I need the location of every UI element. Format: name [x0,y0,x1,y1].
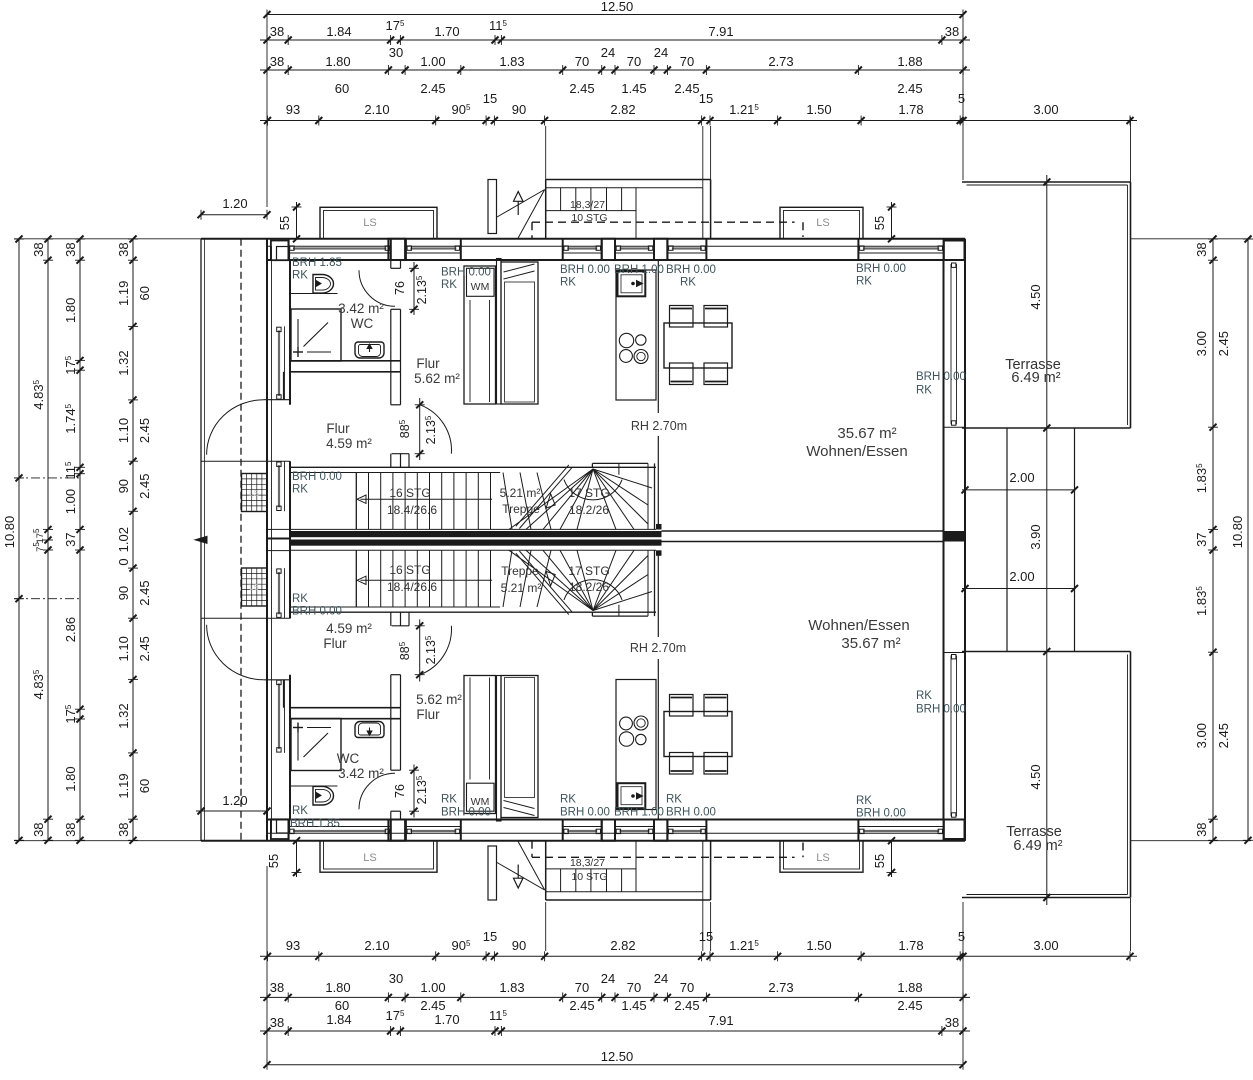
dining table (upper) [664,323,732,368]
window (bottom facade) [858,826,943,828]
Flur partition (lower) [390,675,392,708]
svg-text:10 STG: 10 STG [571,212,607,224]
stair enclosure top unit [290,466,656,468]
terrace top [962,181,1131,183]
svg-text:2.45: 2.45 [674,998,699,1013]
4.50 / 3.90 dim line [1046,175,1048,905]
svg-text:Flur: Flur [416,707,440,722]
svg-text:3.42 m²: 3.42 m² [338,766,384,781]
svg-text:55: 55 [872,216,887,230]
svg-text:18,3/27: 18,3/27 [570,857,605,869]
stair cut line top [516,465,569,526]
svg-text:BRH 0.00: BRH 0.00 [666,264,716,276]
entry door head line (lower) [264,679,291,681]
svg-text:1.78: 1.78 [898,938,923,953]
masonry piers (top facade) [388,239,405,260]
svg-text:7.91: 7.91 [708,1013,733,1028]
svg-text:RH 2.70m: RH 2.70m [630,641,686,655]
svg-text:RK: RK [292,805,308,817]
svg-text:15: 15 [699,91,713,106]
kitchen/living divider (lower) [657,552,659,638]
svg-text:RK: RK [292,270,308,282]
svg-text:1.80: 1.80 [63,766,78,791]
WC right wall (lower) [390,811,392,819]
svg-text:4.50: 4.50 [1028,284,1043,309]
wall pier divider [666,239,668,260]
lightshaft hatch box lower [242,568,268,606]
svg-text:LS: LS [816,217,829,229]
right chain 10.80 [1247,239,1249,840]
svg-text:1.50: 1.50 [806,102,831,117]
strip recess edges / door sill lines [201,460,290,462]
svg-text:5: 5 [958,929,965,944]
left chain 3 [79,239,81,840]
svg-text:2.45: 2.45 [674,81,699,96]
svg-text:BRH 0.00: BRH 0.00 [916,704,966,716]
entry stair riser [606,188,608,211]
svg-text:RK: RK [441,794,457,806]
dim chain top row3 [260,69,970,71]
svg-text:1.45: 1.45 [621,81,646,96]
entry stair enclosure (bottom) [546,899,711,901]
entry ramp diagonals (bottom) [497,863,545,891]
party wall junction pocket [267,529,290,550]
section dash-dot lines [14,477,80,479]
svg-text:60: 60 [137,286,152,300]
svg-text:1.78: 1.78 [898,102,923,117]
Flur door arc + dim 88.5/2.135 (lower) [420,626,452,675]
svg-text:4.59 m²: 4.59 m² [326,621,372,636]
svg-text:3.42 m²: 3.42 m² [338,301,384,316]
1.20 dim top-left [200,214,268,216]
window (bottom facade) [615,826,654,828]
svg-text:38: 38 [31,242,46,256]
svg-text:RK: RK [856,795,872,807]
svg-text:1.19: 1.19 [116,773,131,798]
svg-text:17 STG: 17 STG [568,486,609,500]
window (top facade) [289,252,391,254]
svg-text:2.45: 2.45 [420,81,445,96]
svg-text:1.32: 1.32 [116,350,131,375]
svg-text:RK: RK [441,279,457,291]
svg-text:60: 60 [335,81,349,96]
svg-text:15: 15 [699,929,713,944]
dim chain bottom row4 [260,955,1137,957]
svg-text:5.21 m²: 5.21 m² [500,486,541,500]
stair walk line top [360,498,492,500]
top exterior wall band [201,238,965,240]
WC top wall (lower) [290,707,401,709]
wall pier divider [460,239,462,260]
svg-text:1.10: 1.10 [116,636,131,661]
svg-text:2.45: 2.45 [137,474,152,499]
svg-text:RK: RK [916,690,932,702]
stair winder risers bottom [503,550,512,607]
window (bottom facade) [406,826,461,828]
kitchen island (lower) [616,680,656,810]
dim chain bottom row1 total 12.50 [267,1064,963,1066]
tall cabinet B (lower) [501,676,538,818]
lightwell strip outer lines [200,239,202,841]
tall cabinet A + WM (lower) [464,676,496,814]
stair notch top [392,453,409,455]
svg-text:RK: RK [292,484,308,496]
entry stair riser [590,188,592,211]
svg-text:Wohnen/Essen: Wohnen/Essen [806,443,907,460]
svg-text:BRH 0.00: BRH 0.00 [916,371,966,383]
dim chain top row1 total 12.50 [267,14,963,16]
svg-text:2.73: 2.73 [768,54,793,69]
svg-text:24: 24 [654,971,668,986]
dim chain top row2 [260,39,970,41]
svg-text:1.88: 1.88 [897,54,922,69]
svg-text:38: 38 [116,822,131,836]
svg-text:4.50: 4.50 [1028,764,1043,789]
svg-text:18.2/26: 18.2/26 [569,503,609,517]
svg-text:90: 90 [116,586,131,600]
svg-text:RK: RK [560,794,576,806]
svg-text:93: 93 [286,102,300,117]
stair cut line bottom [516,553,569,614]
svg-text:BRH 1.00: BRH 1.00 [614,807,664,819]
window (top facade) [563,252,602,254]
svg-text:70: 70 [575,54,589,69]
dim chain bottom row2 [260,1030,970,1032]
svg-text:18.2/26: 18.2/26 [569,580,609,594]
svg-text:3.00: 3.00 [1194,331,1209,356]
stair straight risers bottom [368,550,370,607]
svg-text:1.19: 1.19 [116,281,131,306]
entry stair riser [575,188,577,211]
dining table (lower) [664,712,732,757]
svg-text:RK: RK [916,385,932,397]
svg-text:RK: RK [680,277,696,289]
svg-text:BRH 0.00: BRH 0.00 [856,263,906,275]
WC door arc + dim 76/2.135 (upper) [359,270,395,306]
svg-text:0: 0 [116,558,131,565]
svg-text:7.91: 7.91 [708,24,733,39]
entry side bar (bottom) [488,846,497,900]
55 dim top [296,202,298,239]
svg-text:70: 70 [627,54,641,69]
svg-text:76: 76 [393,784,407,798]
upper storey dashed outline [532,221,795,223]
right chain [1212,239,1214,840]
svg-text:38: 38 [31,822,46,836]
svg-text:RK: RK [666,794,682,806]
svg-text:BRH 0.00: BRH 0.00 [441,267,491,279]
svg-text:38: 38 [270,980,284,995]
svg-text:35.67 m²: 35.67 m² [837,425,896,442]
svg-text:24: 24 [654,45,668,60]
wall pier divider [266,239,268,260]
entry side bar [488,180,497,234]
tall cabinet A + WM (upper) [464,266,496,404]
svg-text:1.70: 1.70 [434,1012,459,1027]
svg-text:LS: LS [363,217,376,229]
svg-text:55: 55 [266,854,281,868]
left chain 2 [47,239,49,840]
wall pier divider [964,239,966,260]
svg-text:93: 93 [286,938,300,953]
toilet (upper) [313,275,334,294]
right exterior wall [964,239,966,841]
window (left wall) [278,465,280,507]
left chain 10.80 [18,239,20,840]
svg-text:6.49 m²: 6.49 m² [1011,370,1060,386]
LS box bottom-right [780,841,863,873]
hall stub wall (upper) [497,259,502,405]
svg-text:60: 60 [137,779,152,793]
svg-text:35.67 m²: 35.67 m² [841,635,900,652]
55 dim top-right [891,202,893,239]
WC door arc + dim 76/2.135 (lower) [359,773,395,809]
svg-text:1.88: 1.88 [897,980,922,995]
kitchen island (upper) [616,270,656,400]
LS box top-left [320,207,437,239]
svg-text:15: 15 [483,91,497,106]
extension lines top [266,19,268,207]
extension lines bottom [266,866,268,1061]
WC bottom wall (upper) [290,360,401,362]
svg-text:2.45: 2.45 [420,998,445,1013]
svg-text:70: 70 [680,54,694,69]
chairs (upper) [670,306,694,328]
svg-text:4.59 m²: 4.59 m² [326,436,372,451]
svg-text:90: 90 [116,479,131,493]
shower (upper) [291,309,341,361]
svg-text:30: 30 [389,971,403,986]
terrace connecting walls [964,428,966,652]
svg-text:38: 38 [945,24,959,39]
svg-text:1.45: 1.45 [621,998,646,1013]
svg-text:24: 24 [601,971,615,986]
corner pier detail bottom-left [271,819,289,839]
svg-text:BRH 0.00: BRH 0.00 [666,807,716,819]
window (left wall) [278,683,280,749]
1.20 dim bottom-left [196,810,268,812]
svg-text:5.62 m²: 5.62 m² [416,692,462,707]
svg-text:1.32: 1.32 [116,703,131,728]
stair winder risers top [503,473,512,530]
svg-text:38: 38 [1194,822,1209,836]
svg-text:38: 38 [270,24,284,39]
svg-text:37: 37 [1194,532,1209,546]
svg-text:1.84: 1.84 [326,1012,351,1027]
svg-text:15: 15 [483,929,497,944]
svg-text:RK: RK [856,276,872,288]
wall pier divider [614,239,616,260]
svg-text:3.00: 3.00 [1033,102,1058,117]
svg-text:38: 38 [945,1015,959,1030]
svg-text:1.00: 1.00 [63,489,78,514]
entry door arc (upper) [207,400,264,455]
svg-text:2.00: 2.00 [1009,569,1034,584]
svg-text:RK: RK [560,277,576,289]
svg-text:BRH 0.00: BRH 0.00 [441,807,491,819]
svg-text:WC: WC [337,751,360,766]
svg-text:12.50: 12.50 [601,1049,634,1064]
svg-text:38: 38 [270,54,284,69]
entry stair enclosure [546,179,711,181]
svg-text:37: 37 [63,532,78,546]
wall pier divider [601,239,603,260]
entry door arc (lower) [207,625,264,680]
stair notch bottom [392,625,409,627]
entry direction arrow [514,192,524,202]
wall pier divider [562,239,564,260]
svg-text:1.00: 1.00 [420,980,445,995]
svg-text:2.00: 2.00 [1009,470,1034,485]
sink (upper) [618,271,646,296]
stair straight risers top [368,473,370,530]
wall pier divider [653,239,655,260]
washbasin (lower) [355,722,384,738]
svg-text:1.20: 1.20 [222,793,247,808]
window (right wall) [950,264,952,424]
svg-text:BRH 1.00: BRH 1.00 [614,264,664,276]
svg-text:BRH 0.00: BRH 0.00 [292,471,342,483]
Flur door arc + dim 88.5/2.135 (upper) [420,405,452,454]
svg-text:2.45: 2.45 [137,580,152,605]
svg-text:Wohnen/Essen: Wohnen/Essen [808,617,909,634]
svg-text:Flur: Flur [323,636,347,651]
corner pier detail top-left [271,241,289,261]
svg-text:Treppe: Treppe [502,502,540,516]
svg-text:1.80: 1.80 [325,54,350,69]
cooktop (lower) [619,732,633,746]
window (bottom facade) [289,826,391,828]
stair enclosure bottom unit [290,611,656,613]
svg-text:BRH 1.85: BRH 1.85 [292,257,342,269]
svg-text:12.50: 12.50 [601,0,634,14]
party wall double line (living zone) [662,530,944,532]
window (left wall) [278,572,280,614]
svg-text:LS: LS [249,489,259,498]
WC right wall (upper) [390,260,392,268]
svg-text:WC: WC [351,316,374,331]
svg-text:2.73: 2.73 [768,980,793,995]
svg-text:2.45: 2.45 [137,636,152,661]
svg-text:2.82: 2.82 [610,938,635,953]
svg-text:70: 70 [627,980,641,995]
svg-text:1.00: 1.00 [420,54,445,69]
kitchen/living divider (upper) [657,260,659,413]
Flur partition (upper) [390,372,392,405]
svg-text:5: 5 [958,91,965,106]
wall pier divider [857,239,859,260]
svg-text:1.10: 1.10 [116,418,131,443]
svg-text:38: 38 [63,822,78,836]
svg-text:1.20: 1.20 [222,196,247,211]
svg-text:90: 90 [512,102,526,117]
wall pier divider [390,239,392,260]
svg-text:55: 55 [872,854,887,868]
svg-text:1.84: 1.84 [326,24,351,39]
sink (lower) [618,783,646,808]
svg-text:38: 38 [1194,242,1209,256]
lower storey dashed outline (bottom) [532,856,795,858]
svg-text:Flur: Flur [416,356,440,371]
55 dim bottom [296,841,298,877]
hall stub wall (lower) [497,676,502,822]
entry stair riser [560,188,562,211]
svg-text:5.62 m²: 5.62 m² [414,371,460,386]
svg-text:38: 38 [63,242,78,256]
svg-text:10 STG: 10 STG [571,871,607,883]
svg-text:38: 38 [116,242,131,256]
dim chain top row4 [260,120,1137,122]
svg-text:2.10: 2.10 [364,938,389,953]
party wall black leaves (stair zone) [290,531,662,537]
LS box top-right [780,207,863,239]
svg-text:18,3/27: 18,3/27 [570,199,605,211]
dim chain bottom row3 [260,996,970,998]
svg-text:BRH 0.00: BRH 0.00 [856,808,906,820]
wall pier divider [288,239,290,260]
svg-text:3.90: 3.90 [1028,524,1043,549]
tall cabinet B (upper) [501,262,538,404]
svg-text:1.83: 1.83 [499,980,524,995]
entry direction arrow (bottom) [514,878,524,888]
svg-text:BRH 0.00: BRH 0.00 [292,606,342,618]
wall pier divider [943,239,945,260]
terrace bottom [962,651,1131,653]
entry stair riser [621,188,623,211]
washbasin (upper) [355,342,384,358]
window (bottom facade) [667,826,706,828]
svg-text:2.45: 2.45 [1216,723,1231,748]
entry ramp diagonals [497,190,545,218]
svg-text:5.21 m²: 5.21 m² [501,581,542,595]
svg-text:2.45: 2.45 [1216,331,1231,356]
svg-text:24: 24 [601,45,615,60]
svg-text:1.50: 1.50 [806,938,831,953]
strip dashed axis [240,239,242,841]
svg-text:LS: LS [816,852,829,864]
entry door head line (upper) [264,399,291,401]
witness lines right [1131,238,1252,240]
svg-text:30: 30 [389,45,403,60]
window (top facade) [406,252,461,254]
svg-text:1.70: 1.70 [434,24,459,39]
2.00 dims [962,489,1075,491]
svg-text:38: 38 [270,1015,284,1030]
corner pier detail bottom-right [944,820,965,840]
svg-text:2.45: 2.45 [569,81,594,96]
svg-text:LS: LS [249,583,259,592]
svg-text:Treppe: Treppe [501,564,539,578]
svg-text:55: 55 [277,216,292,230]
window (left wall) [278,330,280,396]
svg-text:LS: LS [363,852,376,864]
LS box bottom-left [320,841,437,873]
svg-text:70: 70 [680,980,694,995]
55 dim bottom-right [891,841,893,877]
svg-text:90: 90 [512,938,526,953]
svg-text:17 STG: 17 STG [568,564,609,578]
window (bottom facade) [563,826,602,828]
witness lines left [14,238,201,240]
svg-text:2.45: 2.45 [897,998,922,1013]
svg-text:2.10: 2.10 [364,102,389,117]
left chain 4 [132,239,134,840]
svg-text:1.83: 1.83 [499,54,524,69]
chairs (lower) [670,695,694,717]
svg-text:RK: RK [292,593,308,605]
svg-text:2.45: 2.45 [137,418,152,443]
svg-text:16 STG: 16 STG [389,563,430,577]
